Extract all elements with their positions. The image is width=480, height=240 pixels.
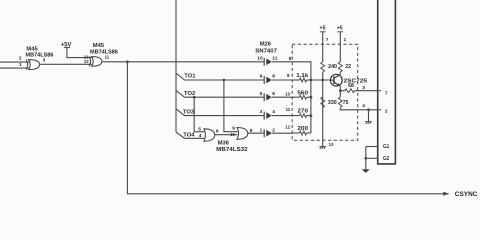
svg-text:5: 5 [198,127,201,133]
svg-text:1.1k: 1.1k [296,73,308,79]
svg-text:75: 75 [343,100,349,106]
svg-text:+5: +5 [320,25,326,31]
svg-text:22: 22 [345,64,351,70]
svg-text:10: 10 [230,132,235,138]
svg-text:M45: M45 [26,46,38,52]
svg-text:M36: M36 [218,140,230,146]
svg-text:12: 12 [84,59,89,65]
svg-text:+5: +5 [337,25,343,31]
svg-text:SN7407: SN7407 [255,49,277,55]
svg-text:200: 200 [297,126,308,132]
svg-text:4: 4 [199,133,202,139]
svg-text:CSYNC: CSYNC [455,192,478,198]
svg-text:4: 4 [272,109,275,115]
svg-text:TO2: TO2 [184,91,195,97]
svg-text:MB74LS32: MB74LS32 [216,147,247,153]
svg-text:9: 9 [232,126,235,132]
svg-text:2SC725: 2SC725 [344,78,368,84]
svg-text:13: 13 [329,142,334,148]
svg-text:11: 11 [272,55,277,61]
svg-text:G2: G2 [383,156,389,162]
svg-text:2: 2 [19,55,22,61]
svg-text:3: 3 [260,109,263,115]
svg-text:MB74LS86: MB74LS86 [26,53,55,59]
svg-text:5: 5 [260,91,263,97]
svg-text:+5V: +5V [61,43,72,49]
svg-text:TO4: TO4 [183,132,194,138]
svg-text:10: 10 [257,55,263,61]
svg-text:8: 8 [289,56,292,62]
svg-text:8: 8 [272,74,275,80]
svg-text:6: 6 [272,91,275,97]
svg-text:TO3: TO3 [183,110,194,116]
svg-text:8: 8 [250,128,253,134]
svg-text:240: 240 [328,64,337,70]
svg-text:9: 9 [287,73,290,79]
svg-text:330: 330 [328,100,337,106]
svg-text:G1: G1 [383,144,389,150]
svg-text:9: 9 [260,74,263,80]
svg-text:4: 4 [362,103,365,109]
svg-text:10: 10 [285,92,290,98]
svg-text:7: 7 [326,37,329,43]
svg-text:TO1: TO1 [184,74,195,80]
svg-text:11: 11 [286,107,291,113]
svg-text:7: 7 [385,91,388,97]
svg-text:M45: M45 [93,43,105,49]
svg-text:3: 3 [43,57,46,63]
svg-text:11: 11 [105,54,110,60]
svg-text:2: 2 [272,128,275,134]
svg-text:560: 560 [297,90,308,96]
svg-text:2: 2 [385,109,388,115]
svg-text:6: 6 [216,129,219,135]
svg-text:270: 270 [297,109,308,115]
svg-text:1: 1 [260,128,263,134]
svg-text:3: 3 [362,85,365,91]
svg-text:1: 1 [19,62,22,68]
svg-text:12: 12 [285,124,290,130]
svg-text:M26: M26 [260,41,272,47]
svg-text:1: 1 [344,37,347,43]
